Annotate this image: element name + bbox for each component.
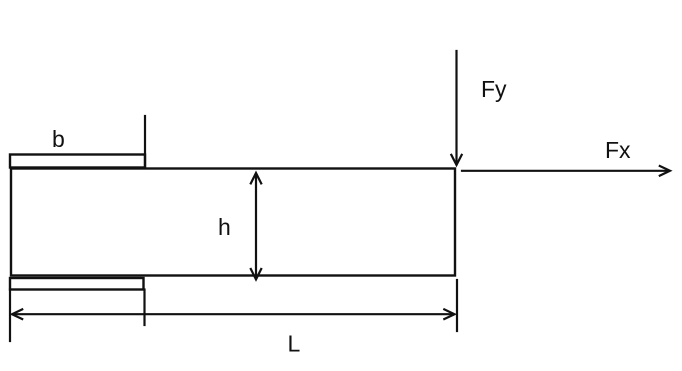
svg-text:h: h <box>218 214 231 240</box>
svg-text:L: L <box>288 331 301 357</box>
svg-text:b: b <box>52 126 65 152</box>
svg-text:Fx: Fx <box>605 137 631 163</box>
svg-text:Fy: Fy <box>481 76 507 102</box>
